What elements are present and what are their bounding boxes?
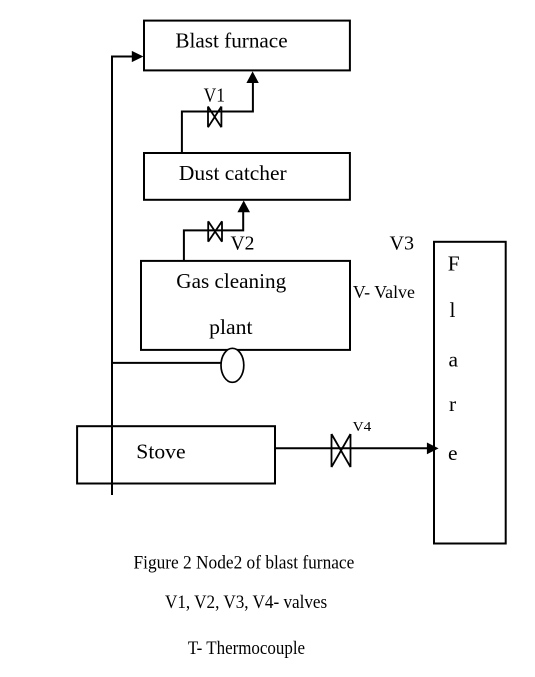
svg-text:V2: V2 xyxy=(231,233,255,254)
svg-text:l: l xyxy=(450,298,456,322)
svg-text:Dust catcher: Dust catcher xyxy=(179,161,287,185)
svg-text:plant: plant xyxy=(209,315,252,339)
svg-text:Stove: Stove xyxy=(136,439,185,463)
svg-text:V1: V1 xyxy=(204,85,225,106)
svg-text:Gas cleaning: Gas cleaning xyxy=(176,269,286,293)
svg-text:a: a xyxy=(449,347,459,371)
svg-text:V3: V3 xyxy=(390,233,415,255)
svg-text:e: e xyxy=(448,441,458,465)
svg-text:V- Valve: V- Valve xyxy=(353,282,415,302)
svg-text:Figure 2 Node2 of blast furnac: Figure 2 Node2 of blast furnace xyxy=(134,552,355,573)
svg-text:V1, V2, V3, V4- valves: V1, V2, V3, V4- valves xyxy=(165,592,327,613)
svg-text:F: F xyxy=(448,251,460,275)
svg-text:V4: V4 xyxy=(353,420,372,435)
svg-text:Blast furnace: Blast furnace xyxy=(175,29,287,53)
svg-text:r: r xyxy=(449,392,456,416)
svg-text:T- Thermocouple: T- Thermocouple xyxy=(188,638,305,659)
